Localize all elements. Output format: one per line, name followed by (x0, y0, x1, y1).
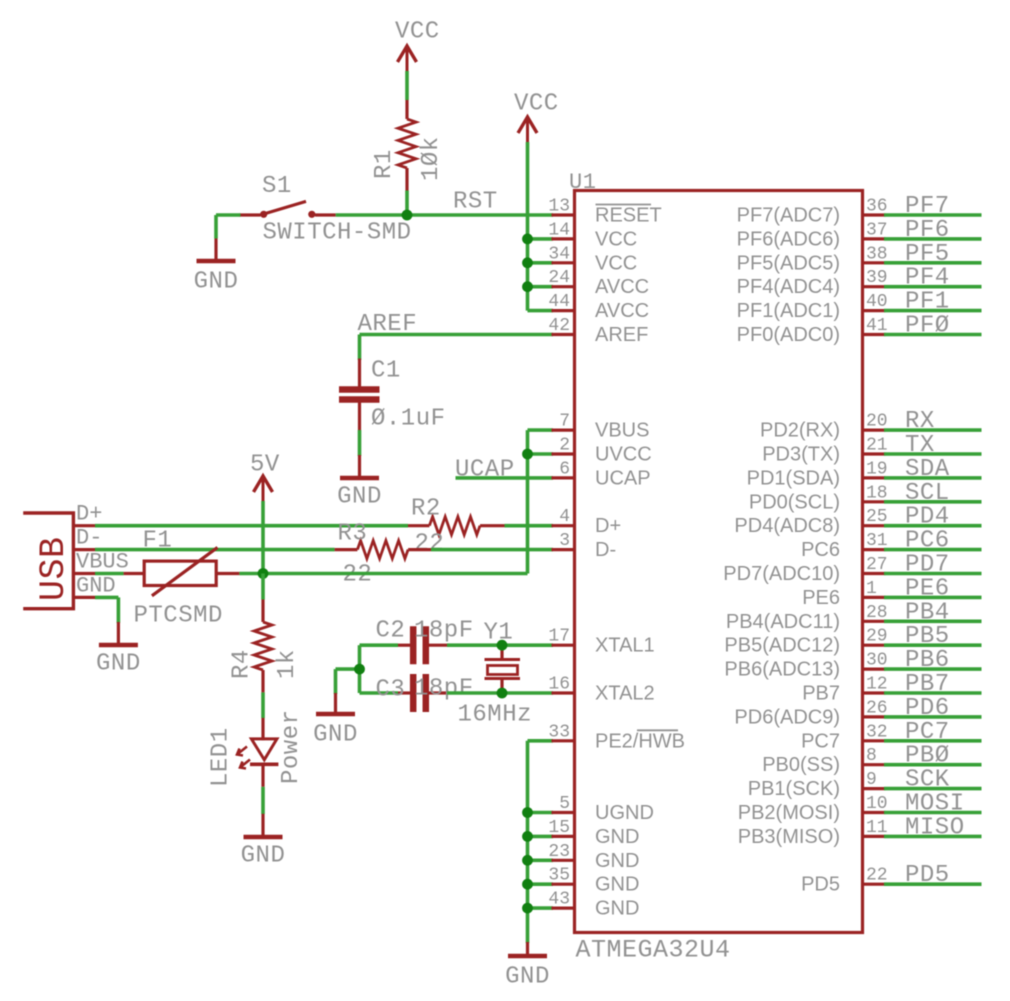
wire net PF0 (884, 333, 982, 337)
ground symbol GND (C1) (358, 455, 361, 476)
svg-text:D-: D- (595, 539, 616, 561)
svg-text:6: 6 (559, 459, 570, 479)
svg-text:44: 44 (548, 292, 570, 312)
svg-text:PD2(RX): PD2(RX) (760, 420, 840, 442)
U1 pin 3 (D-) stub (552, 548, 575, 551)
node VCC junction (522, 257, 533, 268)
U1 pin 2 (UVCC) stub (552, 452, 575, 455)
connector J/USB outline (23, 513, 73, 609)
svg-text:UVCC: UVCC (595, 444, 652, 466)
capacitor C1 0.1uF (358, 359, 361, 387)
svg-text:1Øk: 1Øk (418, 136, 445, 181)
wire net PF1 (884, 309, 982, 313)
svg-text:34: 34 (548, 244, 570, 264)
ground symbol GND (crystal) (334, 693, 337, 712)
wire VCC branch pin row 1 (528, 237, 554, 241)
U1 pin 35 (GND) stub (552, 883, 575, 886)
svg-text:AVCC: AVCC (595, 300, 649, 322)
wire UVCC branch pin 2 (528, 452, 554, 456)
wire AREF net (360, 333, 554, 337)
wire net MISO (884, 835, 982, 839)
svg-text:UGND: UGND (595, 802, 654, 824)
wire 5V net vertical to pin 7 (526, 430, 530, 573)
U1 pin 33 (PE2/HWB) stub (552, 739, 575, 742)
svg-text:PB1(SCK): PB1(SCK) (748, 778, 840, 800)
node RST junction at R1 (402, 210, 413, 221)
svg-text:RST: RST (453, 189, 498, 216)
wire XTAL2 net (447, 691, 553, 695)
U1 pin 40 (PF1(ADC1)) stub (863, 309, 886, 312)
svg-text:VCC: VCC (395, 19, 440, 46)
wire net PB7 (884, 691, 982, 695)
node GND junction (522, 879, 533, 890)
wire 5V arrow to VBUS net (261, 501, 265, 574)
svg-text:PD5: PD5 (905, 862, 950, 889)
U1 pin 12 (PB7) stub (863, 691, 886, 694)
svg-text:MISO: MISO (905, 814, 965, 841)
svg-text:XTAL1: XTAL1 (595, 635, 655, 657)
svg-text:GND: GND (595, 826, 639, 848)
wire net PD7 (884, 572, 982, 576)
wire net PF4 (884, 285, 982, 289)
USB pin VBUS (73, 572, 95, 575)
node GND junction (522, 903, 533, 914)
svg-text:GND: GND (313, 722, 358, 749)
svg-text:C3: C3 (376, 677, 406, 704)
node XTAL2 junction (497, 688, 508, 699)
svg-text:PE2/HWB: PE2/HWB (595, 730, 685, 752)
ground symbol GND (switch) (214, 239, 217, 260)
svg-text:AREF: AREF (595, 324, 648, 346)
U1 pin 16 (XTAL2) stub (552, 691, 575, 694)
svg-text:4: 4 (559, 507, 570, 527)
U1 pin 41 (PF0(ADC0)) stub (863, 333, 886, 336)
U1 pin 5 (UGND) stub (552, 811, 575, 814)
U1 pin 24 (AVCC) stub (552, 285, 575, 288)
wire D+ net (R2 to pin 4) (505, 524, 554, 528)
svg-text:R3: R3 (338, 521, 368, 548)
U1 pin 22 (PD5) stub (863, 883, 886, 886)
wire switch left to GND (216, 213, 241, 217)
svg-text:PF6(ADC6): PF6(ADC6) (737, 228, 840, 250)
U1 pin 32 (PC7) stub (863, 739, 886, 742)
svg-text:GND: GND (241, 843, 286, 870)
svg-text:PB3(MISO): PB3(MISO) (738, 826, 840, 848)
U1 pin 15 (GND) stub (552, 835, 575, 838)
svg-text:PB7: PB7 (802, 683, 840, 705)
wire net SDA (884, 476, 982, 480)
svg-text:PD0(SCL): PD0(SCL) (749, 491, 840, 513)
svg-text:D+: D+ (595, 515, 621, 537)
svg-text:GND: GND (337, 484, 382, 511)
svg-text:PB2(MOSI): PB2(MOSI) (738, 802, 840, 824)
wire VCC branch pin row 2 (528, 261, 554, 265)
svg-text:33: 33 (548, 722, 570, 742)
svg-text:R4: R4 (229, 649, 256, 679)
wire net RX (884, 428, 982, 432)
svg-text:7: 7 (559, 412, 570, 432)
ground symbol GND (IC) (526, 942, 529, 954)
power symbol VCC (R1 pull-up) (398, 46, 417, 62)
node GND junction (522, 855, 533, 866)
U1 pin 21 (PD3(TX)) stub (863, 452, 886, 455)
wire C2/C3 common to GND (358, 645, 362, 693)
fuse F1 PTCSMD (124, 572, 145, 575)
svg-text:Ø.1uF: Ø.1uF (371, 406, 446, 433)
svg-text:23: 23 (548, 842, 570, 862)
svg-text:GND: GND (595, 874, 639, 896)
wire net PD6 (884, 715, 982, 719)
svg-text:VCC: VCC (514, 91, 559, 118)
wire net PF6 (884, 237, 982, 241)
wire net PC7 (884, 739, 982, 743)
svg-text:LED1: LED1 (208, 727, 235, 787)
resistor R3 22 (335, 548, 358, 551)
svg-text:8: 8 (866, 746, 877, 766)
U1 pin 1 (PE6) stub (863, 596, 886, 599)
svg-text:Power: Power (278, 709, 305, 784)
node GND junction (522, 831, 533, 842)
svg-text:35: 35 (548, 866, 570, 886)
wire VCC to R1 (405, 71, 409, 100)
wire RST net (336, 213, 553, 217)
svg-text:14: 14 (548, 220, 570, 240)
U1 pin 26 (PD6(ADC9)) stub (863, 715, 886, 718)
node C2/C3 junction (354, 664, 365, 675)
svg-text:24: 24 (548, 268, 570, 288)
wire net PB0 (884, 763, 982, 767)
node UVCC junction (522, 449, 533, 460)
wire GND pin 15 branch (528, 835, 554, 839)
svg-text:C1: C1 (371, 358, 401, 385)
power symbol 5V (254, 476, 273, 492)
U1 pin 9 (PB1(SCK)) stub (863, 787, 886, 790)
wire C1 to GND (358, 430, 362, 456)
svg-text:13: 13 (548, 197, 570, 217)
U1 pin 39 (PF4(ADC4)) stub (863, 285, 886, 288)
wire net SCK (884, 787, 982, 791)
wire LED1 to GND (261, 765, 264, 787)
node VCC junction (522, 234, 533, 245)
wire net PF7 (884, 213, 982, 217)
svg-text:42: 42 (548, 316, 570, 336)
svg-text:GND: GND (505, 964, 550, 991)
svg-text:5: 5 (559, 794, 570, 814)
wire GND chain vertical (526, 741, 530, 943)
switch S1 SWITCH-SMD (239, 213, 260, 216)
U1 pin 36 (PF7(ADC7)) stub (863, 213, 886, 216)
capacitor C2 18pF (360, 643, 399, 647)
svg-text:PB0(SS): PB0(SS) (762, 754, 840, 776)
svg-text:F1: F1 (143, 528, 173, 555)
svg-text:D+: D+ (76, 502, 102, 527)
U1 pin 4 (D+) stub (552, 524, 575, 527)
svg-text:PD4(ADC8): PD4(ADC8) (734, 515, 840, 537)
resistor R4 1k (261, 600, 264, 623)
svg-text:43: 43 (548, 890, 570, 910)
node VCC junction (522, 281, 533, 292)
wire GND pin 35 branch (528, 882, 554, 886)
svg-text:XTAL2: XTAL2 (595, 683, 655, 705)
U1 pin 8 (PB0(SS)) stub (863, 763, 886, 766)
wire R1 to RST net (405, 191, 409, 216)
U1 pin 42 (AREF) stub (552, 333, 575, 336)
wire VCC branch pin row 3 (528, 285, 554, 289)
wire net PB6 (884, 667, 982, 671)
wire VCC vertical to pins 14/34/24/44 (526, 142, 530, 311)
svg-text:UCAP: UCAP (595, 467, 651, 489)
svg-text:PD7(ADC10): PD7(ADC10) (723, 563, 840, 585)
svg-text:PF1(ADC1): PF1(ADC1) (737, 300, 840, 322)
svg-text:PB6(ADC13): PB6(ADC13) (724, 659, 840, 681)
ground symbol GND (USB) (117, 622, 120, 643)
node GND junction (522, 807, 533, 818)
U1 pin 37 (PF6(ADC6)) stub (863, 237, 886, 240)
svg-text:17: 17 (548, 627, 570, 647)
U1 pin 7 (VBUS) stub (552, 429, 575, 432)
svg-text:U1: U1 (569, 170, 596, 195)
svg-text:16MHz: 16MHz (458, 702, 533, 729)
svg-text:RESET: RESET (595, 205, 662, 227)
wire net TX (884, 452, 982, 456)
svg-text:2: 2 (559, 436, 570, 456)
U1 pin 44 (AVCC) stub (552, 309, 575, 312)
svg-text:3: 3 (559, 531, 570, 551)
svg-text:PFØ: PFØ (905, 313, 950, 340)
svg-text:18pF: 18pF (414, 676, 474, 703)
svg-text:PB5(ADC12): PB5(ADC12) (724, 635, 840, 657)
svg-text:GND: GND (595, 898, 639, 920)
resistor R2 22 (408, 524, 429, 527)
svg-text:22: 22 (415, 531, 445, 558)
svg-text:GND: GND (194, 269, 239, 296)
svg-text:18pF: 18pF (414, 618, 474, 645)
wire net PB5 (884, 643, 982, 647)
U1 pin 23 (GND) stub (552, 859, 575, 862)
op IC U1 ATMEGA32U4 box (575, 191, 863, 933)
svg-text:9: 9 (866, 770, 877, 790)
wire UCAP net (456, 476, 554, 480)
svg-text:VCC: VCC (595, 252, 637, 274)
svg-text:PTCSMD: PTCSMD (134, 603, 223, 630)
U1 pin 11 (PB3(MISO)) stub (863, 835, 886, 838)
U1 pin 25 (PD4(ADC8)) stub (863, 524, 886, 527)
USB pin GND (73, 596, 95, 599)
wire PE2/HWB pin 33 (528, 739, 554, 743)
svg-text:PF0(ADC0): PF0(ADC0) (737, 324, 840, 346)
svg-text:GND: GND (96, 651, 141, 678)
svg-text:PE6: PE6 (802, 587, 840, 609)
wire net PE6 (884, 596, 982, 600)
LED LED1 Power (261, 718, 264, 740)
svg-text:VCC: VCC (595, 228, 637, 250)
svg-text:PC7: PC7 (801, 730, 840, 752)
wire GND pin 43 branch (528, 906, 554, 910)
svg-text:PB4(ADC11): PB4(ADC11) (726, 611, 840, 633)
svg-text:PF4(ADC4): PF4(ADC4) (737, 276, 840, 298)
svg-text:1: 1 (866, 579, 877, 599)
svg-text:PF7(ADC7): PF7(ADC7) (737, 205, 840, 227)
svg-text:R1: R1 (371, 149, 398, 179)
wire USB GND to ground (95, 596, 118, 600)
resistor R1 10k (405, 100, 408, 119)
svg-text:SWITCH-SMD: SWITCH-SMD (263, 220, 412, 247)
svg-text:PF5(ADC5): PF5(ADC5) (737, 252, 840, 274)
U1 pin 17 (XTAL1) stub (552, 644, 575, 647)
USB pin D- (73, 548, 95, 551)
crystal Y1 16MHz (500, 645, 503, 659)
svg-text:VBUS: VBUS (595, 420, 649, 442)
U1 pin 30 (PB6(ADC13)) stub (863, 667, 886, 670)
wire net PC6 (884, 548, 982, 552)
U1 pin 10 (PB2(MOSI)) stub (863, 811, 886, 814)
node XTAL1 junction (497, 640, 508, 651)
U1 pin 28 (PB4(ADC11)) stub (863, 620, 886, 623)
U1 pin 20 (PD2(RX)) stub (863, 429, 886, 432)
U1 pin 43 (GND) stub (552, 906, 575, 909)
wire 5V to R4 (261, 574, 265, 600)
svg-text:PD5: PD5 (801, 874, 840, 896)
U1 pin 13 (RESET) stub (552, 213, 575, 216)
wire D+ net (USB to R2) (95, 524, 408, 528)
svg-text:16: 16 (548, 675, 570, 695)
svg-text:5V: 5V (250, 452, 280, 479)
USB pin D+ (73, 524, 95, 527)
wire net PD5 (884, 882, 982, 886)
svg-text:PD3(TX): PD3(TX) (762, 444, 840, 466)
svg-text:GND: GND (595, 850, 639, 872)
U1 pin 38 (PF5(ADC5)) stub (863, 261, 886, 264)
wire VBUS USB to fuse (95, 572, 124, 576)
svg-text:R2: R2 (411, 496, 441, 523)
U1 pin 29 (PB5(ADC12)) stub (863, 644, 886, 647)
wire UGND pin 5 branch (528, 811, 554, 815)
wire R4 to LED1 (261, 692, 265, 718)
U1 pin 18 (PD0(SCL)) stub (863, 500, 886, 503)
svg-text:PD1(SDA): PD1(SDA) (747, 467, 840, 489)
svg-text:USB: USB (34, 536, 74, 601)
svg-text:S1: S1 (262, 173, 292, 200)
svg-text:15: 15 (548, 818, 570, 838)
U1 pin 6 (UCAP) stub (552, 476, 575, 479)
svg-text:GND: GND (76, 574, 116, 599)
svg-text:VBUS: VBUS (76, 550, 129, 575)
svg-text:ATMEGA32U4: ATMEGA32U4 (576, 936, 731, 965)
svg-text:PC6: PC6 (801, 539, 840, 561)
wire XTAL1 net (447, 643, 553, 647)
wire net PB4 (884, 619, 982, 623)
U1 pin 31 (PC6) stub (863, 548, 886, 551)
power symbol VCC (IC supply) (518, 117, 537, 133)
U1 pin 19 (PD1(SDA)) stub (863, 476, 886, 479)
node VBUS junction (258, 568, 269, 579)
wire D- net (USB to R3) (95, 548, 335, 552)
svg-text:1k: 1k (274, 649, 301, 679)
ground symbol GND (LED1) (261, 814, 264, 835)
svg-text:AVCC: AVCC (595, 276, 649, 298)
U1 pin 14 (VCC) stub (552, 237, 575, 240)
svg-text:C2: C2 (376, 618, 406, 645)
wire net PF5 (884, 261, 982, 265)
U1 pin 34 (VCC) stub (552, 261, 575, 264)
svg-text:PD6(ADC9): PD6(ADC9) (734, 706, 840, 728)
U1 pin 27 (PD7(ADC10)) stub (863, 572, 886, 575)
wire net PD4 (884, 524, 982, 528)
capacitor C3 18pF (360, 691, 399, 695)
svg-text:D-: D- (76, 526, 102, 551)
wire 5V net horizontal (239, 572, 527, 576)
wire GND pin 23 branch (528, 858, 554, 862)
wire D- net (R3 to pin 3) (431, 548, 553, 552)
wire net MOSI (884, 811, 982, 815)
wire net SCL (884, 500, 982, 504)
